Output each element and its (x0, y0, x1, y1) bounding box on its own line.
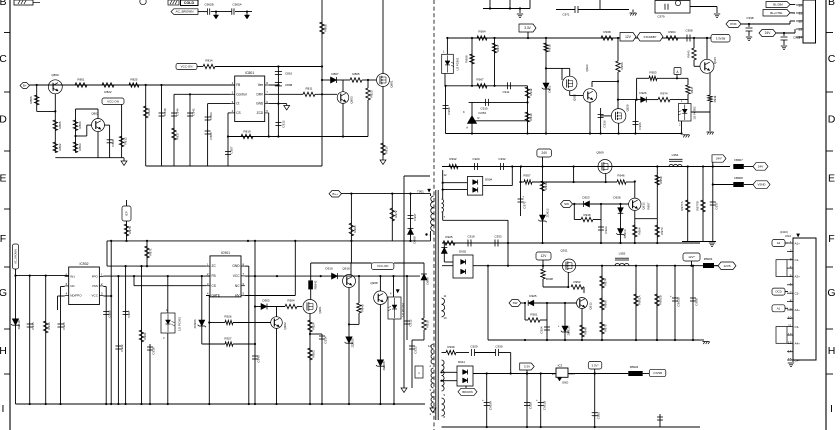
svg-text:R924: R924 (312, 322, 316, 330)
svg-text:E: E (0, 173, 7, 185)
svg-text:I: I (830, 403, 833, 415)
svg-text:CS: CS (212, 284, 216, 288)
svg-text:D: D (0, 114, 7, 126)
svg-text:R973: R973 (660, 227, 664, 235)
svg-text:H: H (828, 345, 836, 357)
svg-text:D904: D904 (485, 178, 493, 182)
svg-text:2: 2 (790, 249, 792, 253)
svg-text:C803: C803 (209, 112, 213, 120)
svg-text:VCC: VCC (92, 294, 99, 298)
svg-text:R947: R947 (690, 86, 694, 93)
svg-text:R961A: R961A (638, 295, 642, 304)
svg-text:R948: R948 (584, 213, 591, 217)
svg-text:C913: C913 (414, 346, 418, 354)
svg-text:R806: R806 (29, 96, 33, 104)
svg-text:C932: C932 (498, 157, 506, 161)
svg-text:5: 5 (790, 274, 792, 278)
svg-text:D902: D902 (459, 250, 467, 254)
svg-text:VCC-ON: VCC-ON (377, 264, 388, 268)
svg-text:Q930: Q930 (573, 94, 577, 101)
svg-text:FB: FB (236, 83, 240, 87)
svg-text:R975: R975 (604, 324, 608, 332)
svg-text:F: F (0, 233, 6, 245)
svg-text:C963A: C963A (232, 3, 241, 7)
svg-text:R938: R938 (603, 30, 611, 34)
svg-text:R944: R944 (544, 182, 548, 190)
svg-text:Ct: Ct (236, 102, 239, 106)
svg-text:Vee: Vee (258, 83, 264, 87)
svg-text:U2 PC961: U2 PC961 (456, 57, 460, 70)
svg-text:3.3VSB: 3.3VSB (653, 371, 662, 375)
svg-text:FPO: FPO (92, 275, 99, 279)
svg-text:IC953: IC953 (479, 111, 487, 115)
svg-text:D922: D922 (548, 85, 552, 93)
svg-text:R974: R974 (660, 92, 668, 96)
svg-text:B: B (0, 0, 7, 8)
svg-text:IN: IN (552, 372, 555, 376)
svg-text:B: B (828, 0, 835, 8)
svg-text:R967: R967 (476, 78, 484, 82)
svg-text:10: 10 (798, 3, 802, 7)
svg-text:FB903: FB903 (704, 257, 713, 261)
svg-text:A2+: A2+ (795, 275, 801, 279)
svg-text:R801: R801 (77, 78, 85, 82)
svg-text:R926: R926 (224, 315, 232, 319)
svg-text:6: 6 (790, 282, 792, 286)
svg-text:DRV: DRV (257, 92, 265, 96)
svg-text:OUT: OUT (569, 372, 575, 376)
svg-text:C907: C907 (127, 310, 131, 318)
svg-text:D911: D911 (458, 360, 465, 364)
svg-text:STANDBY: STANDBY (643, 35, 656, 39)
svg-text:C912: C912 (409, 319, 413, 327)
svg-text:11: 11 (798, 11, 802, 15)
svg-text:IC801: IC801 (245, 71, 254, 75)
svg-text:C3-: C3- (795, 325, 800, 329)
svg-text:R974: R974 (604, 278, 608, 286)
svg-text:FB907: FB907 (734, 158, 743, 162)
svg-text:Q912: Q912 (589, 302, 593, 310)
svg-text:R805: R805 (58, 121, 62, 129)
svg-text:C938: C938 (746, 16, 754, 20)
svg-text:3: 3 (790, 257, 792, 261)
svg-text:Q801: Q801 (390, 80, 394, 88)
svg-text:C806: C806 (209, 132, 213, 140)
svg-text:ZD940: ZD940 (17, 320, 21, 329)
svg-text:D909: D909 (413, 236, 417, 244)
svg-text:12V: 12V (625, 35, 632, 39)
svg-text:ZD906: ZD906 (193, 319, 197, 328)
svg-text:R957: R957 (647, 202, 651, 210)
svg-text:R965: R965 (353, 225, 357, 233)
svg-text:R925: R925 (445, 235, 453, 239)
svg-text:C911: C911 (503, 90, 510, 94)
svg-text:13: 13 (798, 27, 802, 31)
svg-text:GATE: GATE (212, 294, 220, 298)
svg-text:SW: SW (564, 202, 569, 206)
svg-text:R805: R805 (352, 72, 360, 76)
svg-text:VSND: VSND (757, 183, 765, 187)
svg-text:ND/FPO: ND/FPO (70, 294, 82, 298)
svg-text:D926: D926 (639, 91, 647, 95)
svg-text:R813: R813 (124, 137, 128, 145)
svg-text:C928: C928 (529, 402, 533, 410)
svg-text:C4-: C4- (795, 358, 800, 362)
svg-text:C910: C910 (480, 107, 488, 111)
svg-text:COLD: COLD (184, 1, 195, 5)
svg-text:R914: R914 (47, 322, 51, 330)
svg-text:Q911: Q911 (560, 249, 567, 253)
svg-text:C979: C979 (657, 15, 665, 19)
svg-text:D923: D923 (582, 196, 590, 200)
svg-text:Q800: Q800 (51, 73, 59, 77)
svg-text:3.3V*: 3.3V* (592, 363, 600, 367)
svg-text:ZCD: ZCD (257, 111, 264, 115)
svg-text:C969: C969 (447, 107, 451, 115)
svg-text:VCC: VCC (233, 274, 240, 278)
svg-text:R932: R932 (449, 157, 457, 161)
svg-text:K: K (463, 110, 465, 114)
svg-text:R: R (478, 116, 480, 120)
svg-text:3.3VSB: 3.3VSB (716, 36, 726, 40)
svg-text:Q928: Q928 (626, 104, 630, 111)
svg-text:R943: R943 (687, 50, 691, 58)
svg-text:C922: C922 (120, 344, 124, 352)
svg-text:AC_BROWN: AC_BROWN (176, 10, 194, 14)
svg-text:12: 12 (788, 333, 792, 337)
svg-text:D908: D908 (426, 277, 430, 285)
svg-text:C2-: C2- (795, 292, 800, 296)
svg-text:R916: R916 (426, 320, 430, 328)
svg-text:3.3V: 3.3V (524, 26, 531, 30)
svg-text:R814: R814 (205, 59, 213, 63)
svg-text:D910: D910 (325, 267, 333, 271)
svg-text:C917: C917 (715, 202, 719, 210)
svg-text:L955: L955 (619, 252, 626, 256)
svg-text:R819: R819 (243, 130, 251, 134)
svg-text:C1-: C1- (795, 258, 800, 262)
svg-text:R956: R956 (620, 62, 624, 70)
svg-text:R948: R948 (584, 327, 588, 335)
svg-text:R957: R957 (523, 174, 531, 178)
svg-text:12: 12 (798, 19, 802, 23)
svg-text:24V: 24V (758, 165, 764, 169)
svg-text:IC901: IC901 (221, 251, 230, 255)
svg-text:VCC-ON: VCC-ON (107, 99, 119, 103)
svg-text:C930: C930 (495, 345, 503, 349)
svg-text:C939: C939 (793, 36, 800, 40)
svg-text:ZC: ZC (212, 264, 217, 268)
svg-text:G: G (827, 287, 835, 299)
svg-text:A1+: A1+ (795, 241, 801, 245)
svg-text:A4+: A4+ (795, 342, 801, 346)
svg-text:FB908: FB908 (734, 176, 743, 180)
svg-text:C842: C842 (192, 108, 196, 116)
svg-text:ZD905: ZD905 (351, 338, 355, 347)
svg-text:R811: R811 (306, 87, 313, 91)
svg-text:4: 4 (790, 266, 792, 270)
svg-text:Q912: Q912 (642, 202, 646, 210)
svg-text:C: C (828, 53, 836, 65)
svg-text:FB942: FB942 (314, 280, 318, 289)
svg-text:OCD: OCD (775, 290, 781, 294)
svg-text:R803: R803 (78, 143, 82, 151)
svg-text:R959: R959 (659, 176, 663, 184)
svg-text:B+: B+ (23, 84, 27, 88)
svg-text:+: + (523, 195, 525, 199)
svg-text:C936: C936 (602, 120, 606, 128)
svg-text:C920: C920 (472, 157, 480, 161)
svg-text:C940: C940 (257, 355, 261, 363)
svg-text:24V*: 24V* (716, 157, 723, 161)
svg-text:Q916: Q916 (342, 267, 350, 271)
svg-text:ZD912: ZD912 (545, 208, 549, 217)
svg-text:FB904: FB904 (630, 365, 639, 369)
svg-text:R939: R939 (447, 345, 455, 349)
svg-text:SW: SW (513, 301, 518, 305)
svg-text:C966: C966 (638, 122, 642, 130)
svg-text:A1: A1 (777, 306, 781, 310)
svg-text:C968: C968 (695, 298, 699, 306)
svg-text:14: 14 (428, 344, 432, 348)
svg-text:R918: R918 (548, 44, 552, 52)
svg-text:R802: R802 (58, 143, 62, 151)
svg-text:10: 10 (788, 316, 792, 320)
svg-text:R804: R804 (78, 121, 82, 129)
svg-text:R913: R913 (529, 113, 533, 121)
svg-text:IN1: IN1 (70, 275, 75, 279)
svg-text:B++: B++ (332, 192, 338, 196)
svg-text:C967: C967 (413, 213, 417, 221)
svg-text:12: 12 (444, 173, 448, 177)
svg-text:+: + (670, 294, 672, 298)
svg-text:C820: C820 (111, 139, 115, 147)
svg-text:1: 1 (790, 241, 792, 245)
svg-text:12V*: 12V* (688, 255, 695, 259)
svg-text:12V: 12V (541, 254, 548, 258)
svg-text:D: D (828, 114, 836, 126)
svg-text:C838: C838 (163, 108, 167, 116)
svg-text:C929: C929 (470, 345, 478, 349)
svg-text:C963B: C963B (677, 297, 681, 306)
svg-text:BL-DIM: BL-DIM (773, 3, 783, 7)
svg-text:R823: R823 (370, 90, 374, 98)
svg-text:R825: R825 (130, 78, 138, 82)
svg-text:F: F (828, 233, 834, 245)
svg-text:ZD914: ZD914 (623, 229, 627, 238)
svg-text:IC3: IC3 (558, 364, 563, 368)
svg-text:ZD915: ZD915 (567, 326, 571, 335)
svg-text:C919: C919 (467, 235, 475, 239)
svg-text:R968: R968 (465, 55, 469, 63)
svg-text:C918: C918 (152, 347, 156, 355)
svg-text:D925: D925 (529, 294, 537, 298)
svg-text:11: 11 (444, 294, 447, 298)
svg-text:C972: C972 (523, 201, 527, 209)
svg-text:R971: R971 (149, 248, 153, 256)
svg-text:C812: C812 (282, 120, 286, 128)
svg-text:ZD908: ZD908 (382, 361, 386, 370)
svg-text:C950: C950 (596, 412, 600, 420)
svg-text:D928: D928 (613, 195, 621, 199)
svg-text:I: I (2, 403, 5, 415)
svg-text:ICP: ICP (125, 211, 129, 216)
svg-text:R820: R820 (147, 108, 151, 116)
svg-text:R952: R952 (574, 280, 581, 284)
svg-text:GND: GND (256, 102, 264, 106)
svg-text:7: 7 (790, 291, 792, 295)
svg-text:E: E (828, 173, 835, 185)
svg-text:11: 11 (788, 324, 792, 328)
svg-text:A2: A2 (777, 241, 781, 245)
svg-text:L954: L954 (672, 153, 679, 157)
svg-text:C915: C915 (31, 322, 35, 330)
svg-text:R977A: R977A (680, 201, 684, 210)
svg-text:+: + (482, 398, 484, 402)
svg-text:9: 9 (790, 308, 792, 312)
svg-text:A3+: A3+ (795, 308, 801, 312)
svg-text:14: 14 (788, 349, 792, 353)
svg-text:POK: POK (730, 22, 736, 26)
svg-text:C958: C958 (685, 29, 693, 33)
svg-text:R938: R938 (546, 277, 553, 281)
svg-text:24V: 24V (541, 151, 548, 155)
svg-text:R972: R972 (394, 210, 398, 218)
svg-text:R904: R904 (287, 299, 295, 303)
svg-text:C924: C924 (540, 326, 544, 334)
svg-text:24V: 24V (765, 31, 772, 35)
svg-text:IC902: IC902 (80, 262, 89, 266)
svg-text:GND: GND (232, 264, 240, 268)
svg-text:C925: C925 (62, 322, 66, 330)
svg-text:C971: C971 (562, 13, 570, 17)
svg-text:R822: R822 (104, 90, 112, 94)
svg-text:R927: R927 (224, 337, 232, 341)
svg-text:AC_BROWN: AC_BROWN (14, 249, 17, 264)
svg-text:R904: R904 (478, 30, 486, 34)
svg-text:12V5: 12V5 (723, 264, 730, 268)
svg-text:R817: R817 (176, 132, 180, 140)
svg-text:1/2 PC952: 1/2 PC952 (693, 106, 697, 120)
svg-text:10: 10 (444, 316, 448, 320)
svg-text:+: + (536, 398, 538, 402)
svg-text:VSS: VSS (92, 284, 98, 288)
svg-text:H: H (0, 345, 7, 357)
svg-text:FB: FB (212, 274, 216, 278)
svg-text:R951: R951 (530, 313, 538, 317)
svg-text:C923: C923 (604, 226, 608, 234)
svg-text:VCC-ON: VCC-ON (181, 65, 193, 69)
svg-text:C914: C914 (324, 336, 328, 344)
svg-text:BL+CTRL: BL+CTRL (770, 11, 783, 15)
svg-text:3.3V: 3.3V (524, 365, 530, 369)
svg-text:Q908: Q908 (370, 281, 378, 285)
svg-text:R940: R940 (361, 304, 365, 312)
svg-text:C933: C933 (494, 235, 502, 239)
svg-text:R970: R970 (128, 226, 132, 234)
svg-text:15: 15 (788, 358, 792, 362)
svg-text:C961B: C961B (542, 401, 546, 410)
svg-text:GND: GND (562, 381, 568, 385)
svg-text:R949: R949 (713, 95, 717, 102)
svg-text:R903: R903 (312, 350, 316, 358)
svg-text:D903: D903 (262, 299, 270, 303)
svg-text:R816: R816 (385, 146, 389, 154)
svg-text:C844: C844 (176, 108, 180, 116)
svg-text:A: A (466, 126, 468, 130)
svg-text:T901: T901 (417, 190, 424, 194)
svg-text:Q909: Q909 (596, 151, 604, 155)
svg-text:C810: C810 (285, 72, 293, 76)
svg-text:13: 13 (788, 341, 792, 345)
svg-text:C: C (0, 53, 7, 65)
svg-text:Control: Control (236, 92, 247, 96)
svg-text:Q923: Q923 (585, 64, 589, 71)
svg-text:C963A: C963A (488, 401, 492, 410)
svg-text:C807: C807 (230, 146, 234, 154)
svg-text:C962B: C962B (204, 3, 213, 7)
svg-text:R977B: R977B (696, 201, 700, 210)
svg-text:Q915: Q915 (713, 57, 717, 64)
svg-text:R946: R946 (617, 174, 625, 178)
svg-text:R964: R964 (668, 30, 676, 34)
svg-text:Q803: Q803 (350, 96, 354, 104)
svg-text:R991: R991 (143, 332, 147, 340)
svg-text:R961B: R961B (659, 295, 663, 304)
svg-text:R964: R964 (637, 227, 641, 235)
svg-text:CN2: CN2 (785, 234, 791, 238)
svg-text:C808: C808 (285, 83, 293, 87)
svg-text:BROWN: BROWN (462, 390, 472, 394)
svg-text:1/2 PC961: 1/2 PC961 (178, 317, 182, 332)
svg-text:NC: NC (235, 284, 240, 288)
svg-text:R808: R808 (324, 24, 328, 32)
svg-text:R966: R966 (604, 300, 608, 308)
svg-text:G: G (0, 287, 7, 299)
svg-text:R917: R917 (496, 44, 500, 52)
svg-text:Q902: Q902 (283, 322, 287, 330)
svg-text:8: 8 (790, 299, 792, 303)
svg-text:R953: R953 (649, 71, 657, 75)
svg-text:Q901: Q901 (318, 306, 322, 314)
svg-text:CS: CS (236, 111, 240, 115)
svg-text:R912: R912 (529, 88, 533, 96)
svg-text:D807: D807 (331, 72, 339, 76)
